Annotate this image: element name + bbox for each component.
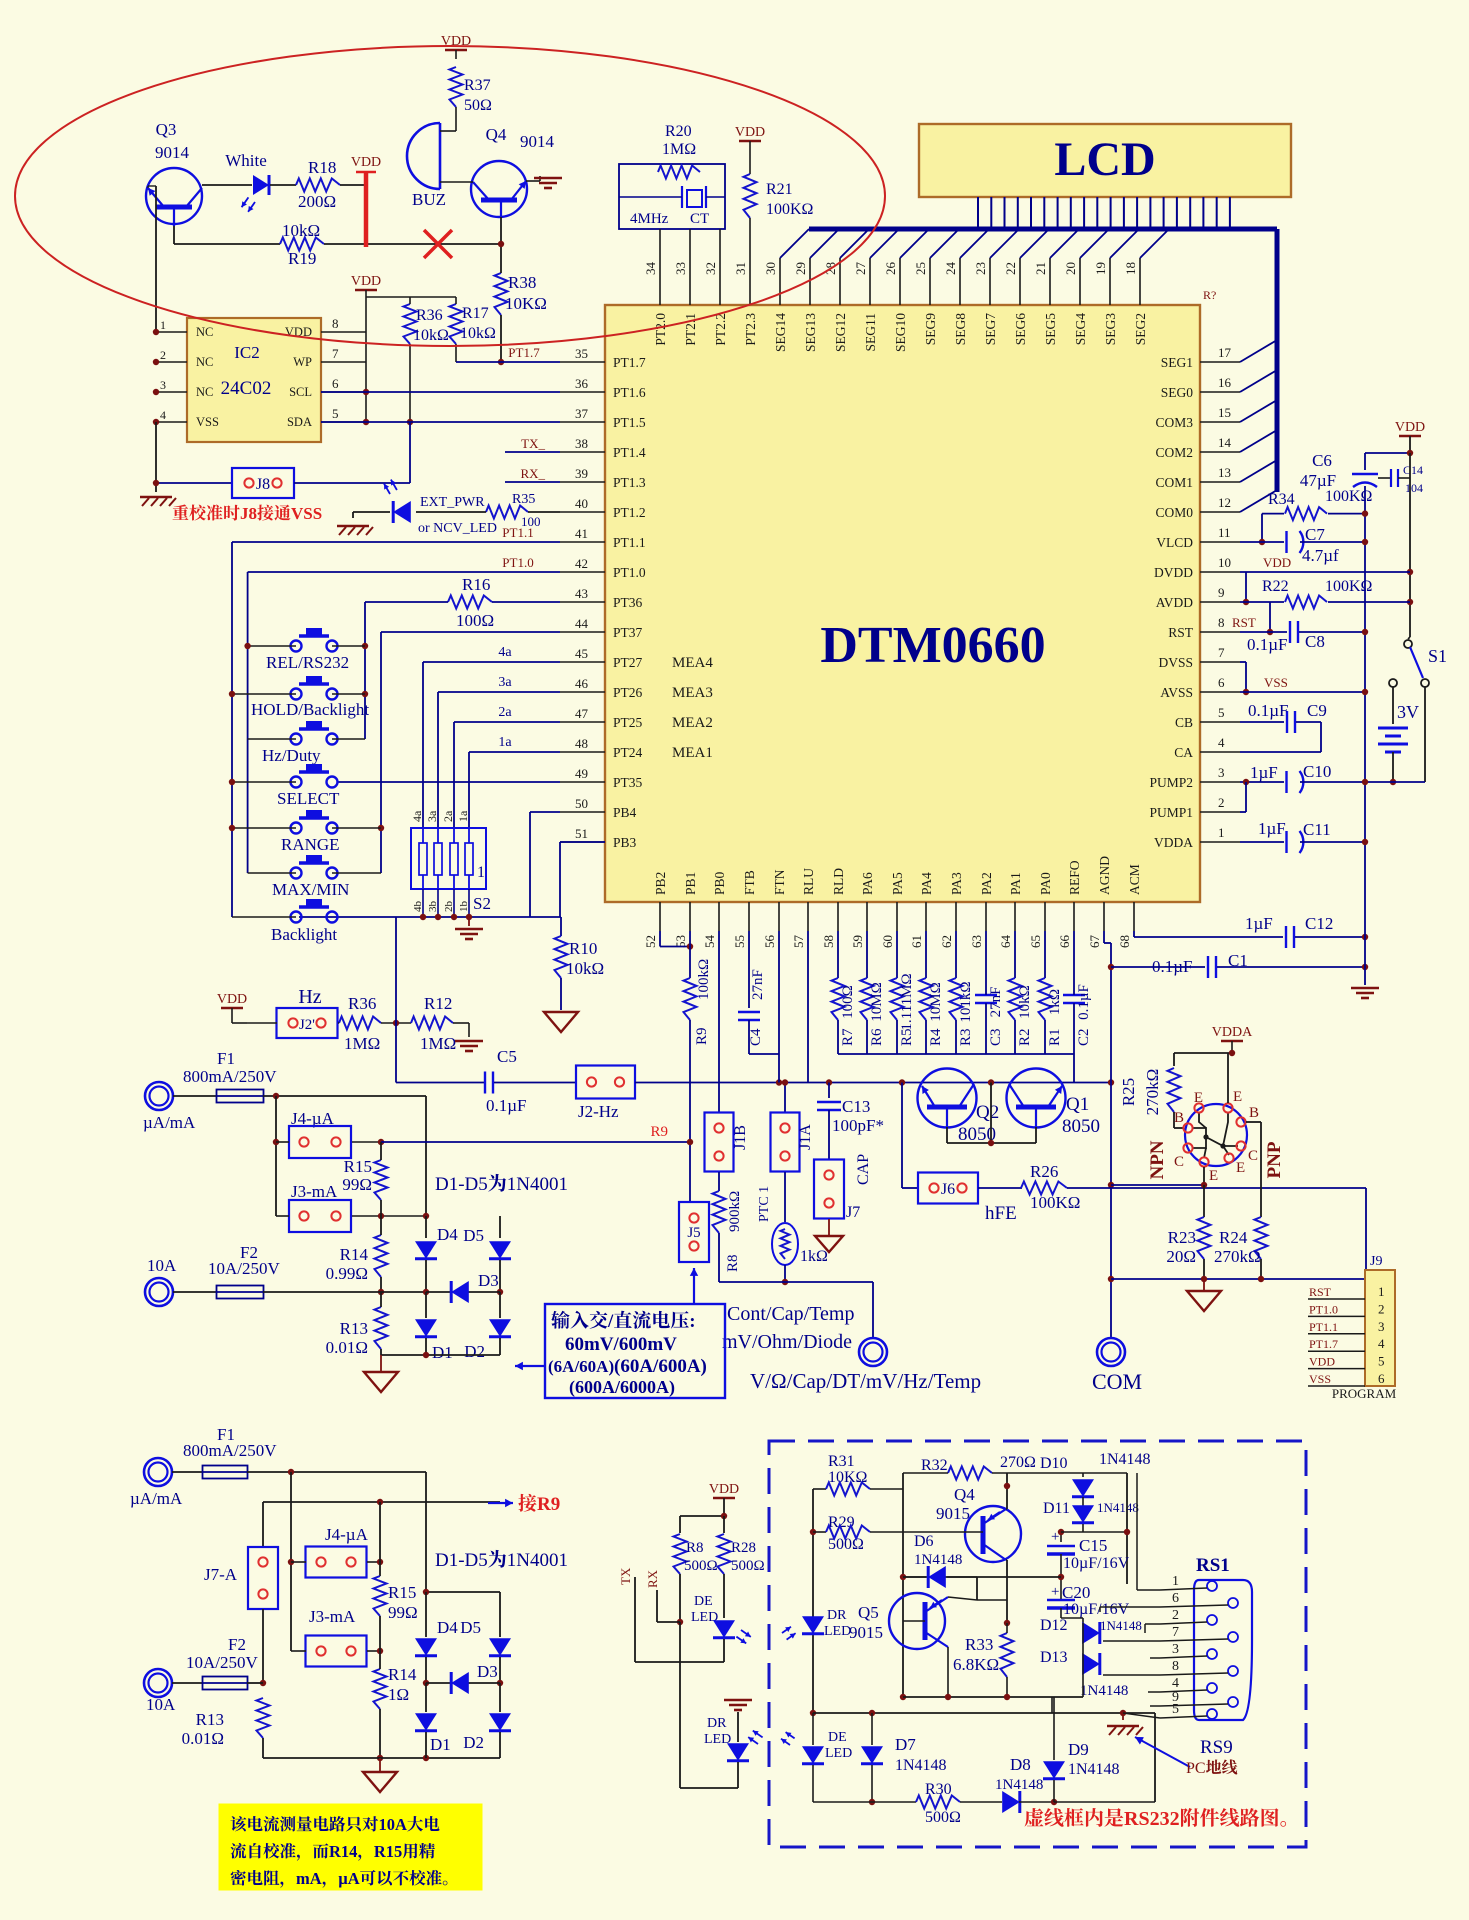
svg-text:100pF*: 100pF* xyxy=(832,1116,884,1135)
capacitor C12 1uF xyxy=(1285,926,1287,948)
svg-text:7: 7 xyxy=(1172,1625,1179,1640)
wire D10 right column xyxy=(1126,1473,1128,1584)
pushbutton HOLD/Backlight xyxy=(291,689,302,700)
svg-text:38: 38 xyxy=(575,436,588,451)
svg-text:+: + xyxy=(1051,1584,1059,1600)
svg-text:VDD: VDD xyxy=(1309,1355,1335,1369)
svg-text:2a: 2a xyxy=(441,810,455,822)
svg-text:3a: 3a xyxy=(425,810,439,822)
wire Q4 emitter up xyxy=(1006,1508,1007,1510)
svg-text:1N4001: 1N4001 xyxy=(507,1550,568,1571)
svg-text:37: 37 xyxy=(575,406,589,421)
svg-text:6: 6 xyxy=(332,376,339,391)
wire R21 to pin31 xyxy=(749,218,751,258)
svg-text:J4-µA: J4-µA xyxy=(325,1525,369,1544)
terminal 10A input xyxy=(145,1278,173,1306)
left button bus A xyxy=(231,542,233,917)
ground bottom right rail xyxy=(1364,967,1366,985)
svg-text:4b: 4b xyxy=(412,901,424,913)
svg-text:R16: R16 xyxy=(462,575,490,594)
svg-text:10: 10 xyxy=(1218,555,1231,570)
wire Hz net vertical xyxy=(395,917,397,1083)
diode D3b xyxy=(426,1682,500,1684)
svg-text:CAP: CAP xyxy=(855,1154,872,1185)
svg-text:R20: R20 xyxy=(665,123,692,140)
resistor R23 20ohm xyxy=(1203,1185,1205,1217)
resistor R24 270k xyxy=(1255,1217,1268,1259)
wire pin39 RX xyxy=(505,481,560,483)
svg-text:29: 29 xyxy=(793,262,808,275)
svg-text:R9: R9 xyxy=(694,1027,710,1045)
wire AVSS pin6 VSS xyxy=(1240,691,1365,693)
svg-text:26: 26 xyxy=(883,262,898,276)
ground under J7 xyxy=(828,1219,830,1235)
svg-text:C5: C5 xyxy=(497,1047,517,1066)
svg-text:R12: R12 xyxy=(424,994,452,1013)
svg-text:900kΩ: 900kΩ xyxy=(727,1191,743,1232)
svg-text:(60A/600A): (60A/600A) xyxy=(614,1356,707,1377)
svg-text:AGND: AGND xyxy=(1097,856,1112,895)
svg-text:RST: RST xyxy=(1232,615,1256,630)
wire to bridge top xyxy=(425,1472,427,1592)
svg-text:0.01Ω: 0.01Ω xyxy=(326,1338,368,1357)
svg-text:hFE: hFE xyxy=(985,1203,1017,1224)
svg-text:3: 3 xyxy=(160,378,166,392)
svg-text:VSS: VSS xyxy=(291,504,322,523)
svg-text:R4: R4 xyxy=(928,1028,944,1046)
svg-text:1kΩ: 1kΩ xyxy=(1047,989,1063,1015)
resistor R21 xyxy=(744,174,757,218)
svg-text:10µF/16V: 10µF/16V xyxy=(1063,1555,1130,1572)
svg-text:PA5: PA5 xyxy=(890,872,905,895)
svg-text:43: 43 xyxy=(575,586,588,601)
wire Q5 base xyxy=(903,1620,925,1622)
svg-text:52: 52 xyxy=(643,935,658,948)
svg-text:µA: µA xyxy=(338,1869,360,1888)
red X mark xyxy=(424,230,452,258)
left rail rs232 xyxy=(812,1489,814,1713)
svg-text:1: 1 xyxy=(477,864,485,881)
svg-text:D3: D3 xyxy=(478,1271,499,1290)
component R2 10kΩ xyxy=(1014,931,1016,978)
wire Q3 emitter down xyxy=(173,226,175,244)
wire pin68 ACM to C12 xyxy=(1133,931,1135,937)
svg-text:SEG6: SEG6 xyxy=(1013,313,1028,346)
svg-text:C20: C20 xyxy=(1062,1583,1090,1602)
diode D7 1N4148 xyxy=(861,1746,883,1764)
svg-text:100KΩ: 100KΩ xyxy=(1325,488,1373,505)
IC2 right pin wires xyxy=(321,331,366,333)
svg-text:1.111MΩ: 1.111MΩ xyxy=(899,973,915,1030)
svg-text:PT1.0: PT1.0 xyxy=(1309,1302,1338,1316)
svg-text:D10: D10 xyxy=(1040,1455,1068,1472)
svg-text:1MΩ: 1MΩ xyxy=(420,1034,456,1053)
svg-text:SEG8: SEG8 xyxy=(953,313,968,346)
svg-text:D4: D4 xyxy=(437,1225,458,1244)
resistor R18 200ohm xyxy=(296,179,340,192)
svg-text:R37: R37 xyxy=(464,77,491,94)
capacitor C7 4.7uF xyxy=(1285,531,1287,553)
resistor R8 900k xyxy=(718,1172,720,1191)
svg-text:1N4148: 1N4148 xyxy=(1068,1761,1120,1778)
svg-text:5: 5 xyxy=(1172,1702,1179,1717)
yellow warning note xyxy=(219,1804,482,1890)
svg-text:J3-mA: J3-mA xyxy=(309,1607,356,1626)
svg-text:R35: R35 xyxy=(512,492,535,507)
svg-text:60mV/600mV: 60mV/600mV xyxy=(565,1334,677,1355)
fuse F2b xyxy=(172,1682,203,1684)
svg-text:PT1.2: PT1.2 xyxy=(613,505,646,520)
svg-text:S2: S2 xyxy=(473,894,491,913)
wire backlight row xyxy=(299,916,561,918)
bus fan wires to SEG pins xyxy=(780,229,809,258)
svg-text:RLD: RLD xyxy=(831,868,846,895)
DTM0660 top pin stubs xyxy=(659,258,661,305)
svg-text:R15: R15 xyxy=(388,1583,416,1602)
svg-text:PA4: PA4 xyxy=(919,872,934,895)
svg-text:SEG10: SEG10 xyxy=(893,313,908,352)
resistor R19 10k xyxy=(174,243,280,245)
svg-text:µA/mA: µA/mA xyxy=(143,1113,196,1132)
svg-text:BUZ: BUZ xyxy=(412,190,446,209)
RS232 dashed enclosure xyxy=(769,1441,1306,1847)
wire to R9 net xyxy=(381,1141,690,1143)
svg-text:62: 62 xyxy=(939,935,954,948)
svg-text:R15: R15 xyxy=(344,1157,372,1176)
svg-text:D3: D3 xyxy=(477,1662,498,1681)
svg-text:EXT_PWR: EXT_PWR xyxy=(420,495,485,510)
svg-text:1: 1 xyxy=(1378,1284,1385,1299)
component R4 10MΩ xyxy=(925,931,927,978)
svg-text:MAX/MIN: MAX/MIN xyxy=(272,880,349,899)
jumper J1B xyxy=(705,1113,734,1172)
svg-text:R14: R14 xyxy=(340,1245,369,1264)
svg-text:RS1: RS1 xyxy=(1196,1555,1230,1576)
svg-text:1N4148: 1N4148 xyxy=(1080,1683,1128,1699)
svg-text:10kΩ: 10kΩ xyxy=(282,221,320,240)
svg-text:2: 2 xyxy=(160,348,166,362)
svg-text:PT2.3: PT2.3 xyxy=(743,313,758,346)
svg-text:COM1: COM1 xyxy=(1155,475,1193,490)
IC2 24C02 body xyxy=(187,318,321,442)
svg-text:57: 57 xyxy=(791,935,806,949)
diode D2 xyxy=(499,1292,501,1318)
wire SDA to pin37 xyxy=(321,421,560,423)
svg-text:1: 1 xyxy=(1218,825,1225,840)
svg-text:Q2: Q2 xyxy=(976,1102,999,1123)
svg-text:46: 46 xyxy=(575,676,589,691)
rail R31-R32 xyxy=(902,1473,904,1697)
svg-text:1µF: 1µF xyxy=(1245,914,1273,933)
svg-text:65: 65 xyxy=(1028,935,1043,948)
svg-text:PT1.7: PT1.7 xyxy=(613,355,646,370)
wire pin54 to J1B xyxy=(718,931,720,1113)
svg-text:270kΩ: 270kΩ xyxy=(1214,1247,1261,1266)
svg-text:mV/Ohm/Diode: mV/Ohm/Diode xyxy=(722,1331,852,1353)
svg-text:PT1.0: PT1.0 xyxy=(502,555,533,570)
svg-text:PT1.1: PT1.1 xyxy=(502,525,533,540)
svg-text:TX_: TX_ xyxy=(521,436,545,451)
wire NPN emitter row xyxy=(1203,1167,1205,1185)
svg-text:66: 66 xyxy=(1057,935,1072,949)
capacitor C1 0.1uF xyxy=(1111,966,1205,968)
svg-text:J5: J5 xyxy=(687,1225,700,1241)
svg-text:R21: R21 xyxy=(766,181,793,198)
svg-text:4.7µf: 4.7µf xyxy=(1302,546,1339,565)
svg-text:D1: D1 xyxy=(432,1343,453,1362)
svg-text:1N4148: 1N4148 xyxy=(895,1757,947,1774)
svg-text:3: 3 xyxy=(1172,1642,1179,1657)
svg-text:500Ω: 500Ω xyxy=(684,1558,718,1574)
bottom rail 2 xyxy=(263,1757,500,1759)
svg-text:PT1.0: PT1.0 xyxy=(613,565,646,580)
wire R15 column xyxy=(379,1502,381,1576)
svg-text:R6: R6 xyxy=(869,1028,885,1046)
svg-text:99Ω: 99Ω xyxy=(388,1603,418,1622)
LCD bus xyxy=(809,227,1277,232)
svg-text:PUMP2: PUMP2 xyxy=(1149,775,1193,790)
pushbutton Hz/Duty xyxy=(291,734,302,745)
resistor R35 100 xyxy=(486,506,528,519)
svg-text:1a: 1a xyxy=(456,810,470,822)
svg-text:1N4148: 1N4148 xyxy=(995,1777,1043,1793)
svg-text:Hz: Hz xyxy=(298,986,321,1008)
svg-text:DE: DE xyxy=(828,1730,847,1745)
svg-text:C13: C13 xyxy=(842,1097,870,1116)
svg-text:VDD: VDD xyxy=(1263,555,1291,570)
component R6 10MΩ xyxy=(866,931,868,978)
svg-text:59: 59 xyxy=(850,935,865,948)
svg-text:500Ω: 500Ω xyxy=(731,1558,765,1574)
svg-text:RLU: RLU xyxy=(801,868,816,895)
svg-text:0.1µF: 0.1µF xyxy=(1247,635,1288,654)
bridge 2 top xyxy=(426,1591,500,1593)
svg-text:2: 2 xyxy=(1378,1301,1385,1316)
svg-text:58: 58 xyxy=(821,935,836,948)
svg-text:PT24: PT24 xyxy=(613,745,643,760)
svg-text:R15: R15 xyxy=(374,1842,402,1861)
component R1 1kΩ xyxy=(1044,931,1046,978)
wire TX vertical xyxy=(634,1577,636,1662)
svg-text:13: 13 xyxy=(1218,465,1231,480)
transistor Q3 9014 xyxy=(146,168,202,224)
fuse F2 10A xyxy=(173,1291,216,1293)
diode D5 xyxy=(499,1216,501,1238)
svg-text:TX: TX xyxy=(618,1567,633,1585)
svg-text:0.1µF: 0.1µF xyxy=(1152,957,1193,976)
svg-text:11: 11 xyxy=(1218,525,1231,540)
svg-text:µA/mA: µA/mA xyxy=(130,1489,183,1508)
resistor R17 10k xyxy=(450,304,463,344)
svg-text:RX_: RX_ xyxy=(520,466,545,481)
svg-text:D5: D5 xyxy=(460,1618,481,1637)
svg-text:DTM0660: DTM0660 xyxy=(820,617,1045,674)
svg-text:1MΩ: 1MΩ xyxy=(662,141,696,158)
svg-text:22: 22 xyxy=(1003,262,1018,275)
svg-text:RS232: RS232 xyxy=(1124,1808,1180,1830)
svg-text:0.1µF: 0.1µF xyxy=(1076,984,1092,1020)
svg-text:0.01Ω: 0.01Ω xyxy=(182,1729,224,1748)
svg-text:LCD: LCD xyxy=(1054,133,1155,186)
wires MEA 4a-1a to S2 xyxy=(423,661,560,663)
svg-text:PT35: PT35 xyxy=(613,775,643,790)
svg-text:12: 12 xyxy=(1218,495,1231,510)
bottom row 1 rs232 xyxy=(813,1712,1155,1714)
svg-text:FTN: FTN xyxy=(772,869,787,895)
svg-text:10KΩ: 10KΩ xyxy=(505,294,547,313)
svg-text:(6A/60A): (6A/60A) xyxy=(548,1357,614,1376)
RS1 pin 8 xyxy=(1228,1666,1238,1676)
svg-text:47: 47 xyxy=(575,706,589,721)
svg-text:RX: RX xyxy=(645,1569,660,1588)
svg-text:DR: DR xyxy=(827,1608,847,1623)
svg-text:NC: NC xyxy=(196,325,213,339)
svg-text:24: 24 xyxy=(943,262,958,276)
svg-text:25: 25 xyxy=(913,262,928,275)
left bus to ground xyxy=(155,422,157,483)
svg-text:LED: LED xyxy=(824,1624,851,1639)
wire PNP base to R24 xyxy=(1246,1121,1261,1123)
svg-text:CA: CA xyxy=(1174,745,1193,760)
svg-text:SEG3: SEG3 xyxy=(1103,313,1118,346)
svg-text:Backlight: Backlight xyxy=(271,925,337,944)
svg-text:E: E xyxy=(1233,1089,1242,1105)
ground PC xyxy=(1122,1713,1124,1720)
svg-text:32: 32 xyxy=(703,262,718,275)
svg-text:F1: F1 xyxy=(217,1049,235,1068)
socket pin E top-right xyxy=(1223,1103,1232,1112)
terminal 10A 2 xyxy=(144,1669,172,1697)
wire J4 feed xyxy=(290,1472,292,1651)
RS1 pin 2 xyxy=(1207,1615,1217,1625)
transistor Q2 8050 xyxy=(918,1069,977,1128)
svg-text:PT2.2: PT2.2 xyxy=(713,313,728,346)
svg-text:4: 4 xyxy=(160,408,166,422)
svg-text:8050: 8050 xyxy=(1062,1116,1100,1137)
wire jieR9 row xyxy=(263,1501,500,1503)
svg-text:3b: 3b xyxy=(427,901,439,913)
component R7 100Ω xyxy=(837,931,839,978)
terminal uA/mA input 2 xyxy=(144,1458,172,1486)
svg-text:R18: R18 xyxy=(308,158,336,177)
bus fan wires to right SEG/COM pins xyxy=(1240,340,1277,362)
svg-text:Q1: Q1 xyxy=(1066,1094,1089,1115)
svg-text:10A/250V: 10A/250V xyxy=(186,1653,259,1672)
svg-text:50Ω: 50Ω xyxy=(464,97,492,114)
capacitor C4 27nF xyxy=(748,931,750,1008)
LED DR rs232 xyxy=(802,1616,824,1634)
svg-text:FTB: FTB xyxy=(742,870,757,895)
component R5 1.111MΩ xyxy=(896,931,898,978)
wire left feed xyxy=(275,1096,277,1216)
svg-text:LED: LED xyxy=(825,1746,852,1761)
svg-text:(600A/6000A): (600A/6000A) xyxy=(569,1377,675,1398)
svg-text:R38: R38 xyxy=(508,273,536,292)
svg-text:4: 4 xyxy=(1378,1336,1385,1351)
transistor Q4 9014 xyxy=(471,161,527,217)
red note jie R9 xyxy=(518,1494,536,1512)
bank bottom bracket xyxy=(838,1053,1074,1055)
svg-text:49: 49 xyxy=(575,766,588,781)
svg-text:PT26: PT26 xyxy=(613,685,643,700)
svg-text:PA1: PA1 xyxy=(1008,872,1023,895)
svg-text:SCL: SCL xyxy=(289,385,312,399)
wire hFE branch xyxy=(901,1083,903,1189)
svg-text:VDD: VDD xyxy=(735,125,765,140)
svg-text:21: 21 xyxy=(1033,262,1048,275)
wire pin56 FTN xyxy=(778,931,780,1083)
svg-text:30: 30 xyxy=(763,262,778,275)
pushbutton REL/RS232 xyxy=(291,641,302,652)
svg-text:800mA/250V: 800mA/250V xyxy=(183,1067,277,1086)
svg-text:56: 56 xyxy=(762,935,777,949)
svg-text:60: 60 xyxy=(880,935,895,948)
svg-text:D8: D8 xyxy=(1010,1755,1031,1774)
svg-text:R5: R5 xyxy=(899,1028,915,1046)
svg-text:MEA3: MEA3 xyxy=(672,685,713,701)
socket pin E top-left xyxy=(1194,1103,1203,1112)
svg-text:PT1.3: PT1.3 xyxy=(613,475,646,490)
ground under EXT_PWR led xyxy=(337,525,369,527)
svg-text:2: 2 xyxy=(1218,795,1225,810)
svg-text:SEG7: SEG7 xyxy=(983,313,998,346)
svg-text:33: 33 xyxy=(673,262,688,275)
svg-text:10kΩ: 10kΩ xyxy=(566,959,604,978)
wire SCL to pin36 xyxy=(321,391,560,393)
svg-text:99Ω: 99Ω xyxy=(342,1175,372,1194)
svg-text:MEA1: MEA1 xyxy=(672,745,713,761)
svg-text:HOLD/Backlight: HOLD/Backlight xyxy=(251,700,369,719)
svg-text:17: 17 xyxy=(1218,345,1232,360)
resistor R25 270k xyxy=(1168,1068,1181,1112)
svg-text:PT1.7: PT1.7 xyxy=(1309,1337,1338,1351)
svg-text:27nF: 27nF xyxy=(750,969,766,1000)
svg-text:Hz/Duty: Hz/Duty xyxy=(262,746,321,765)
svg-text:1kΩ: 1kΩ xyxy=(800,1248,828,1265)
capacitor C10 1uF xyxy=(1240,781,1284,783)
svg-text:VLCD: VLCD xyxy=(1156,535,1193,550)
svg-text:4a: 4a xyxy=(498,645,512,660)
resistor R34 100K xyxy=(1262,513,1284,515)
wire pin41 PT1.1 xyxy=(232,541,560,543)
resistor R10 10k xyxy=(560,917,562,936)
jumper J7 xyxy=(814,1160,844,1219)
svg-text:PT2.1: PT2.1 xyxy=(683,313,698,346)
svg-text:S1: S1 xyxy=(1428,646,1447,666)
svg-text:27: 27 xyxy=(853,262,868,276)
svg-text:1µF: 1µF xyxy=(1258,819,1286,838)
svg-text:10A/250V: 10A/250V xyxy=(208,1259,281,1278)
svg-text:J1A: J1A xyxy=(797,1124,814,1150)
capacitor C14 104 xyxy=(1378,477,1391,479)
svg-text:J2-Hz: J2-Hz xyxy=(578,1102,619,1121)
svg-text:SEG13: SEG13 xyxy=(803,313,818,352)
svg-text:68: 68 xyxy=(1117,935,1132,948)
svg-text:50: 50 xyxy=(575,796,588,811)
component C3 27nF xyxy=(985,931,987,978)
diode D5b xyxy=(499,1592,501,1637)
svg-text:REL/RS232: REL/RS232 xyxy=(266,653,349,672)
svg-text:J8: J8 xyxy=(240,504,257,523)
svg-text:R25: R25 xyxy=(1119,1078,1138,1106)
svg-text:PB3: PB3 xyxy=(613,835,637,850)
wire RX vertical xyxy=(656,1590,658,1622)
svg-text:PC: PC xyxy=(1186,1760,1206,1777)
pushbutton SELECT xyxy=(291,777,302,788)
svg-text:D7: D7 xyxy=(895,1735,916,1754)
svg-text:101kΩ: 101kΩ xyxy=(958,981,974,1022)
LCD module body xyxy=(919,124,1291,197)
